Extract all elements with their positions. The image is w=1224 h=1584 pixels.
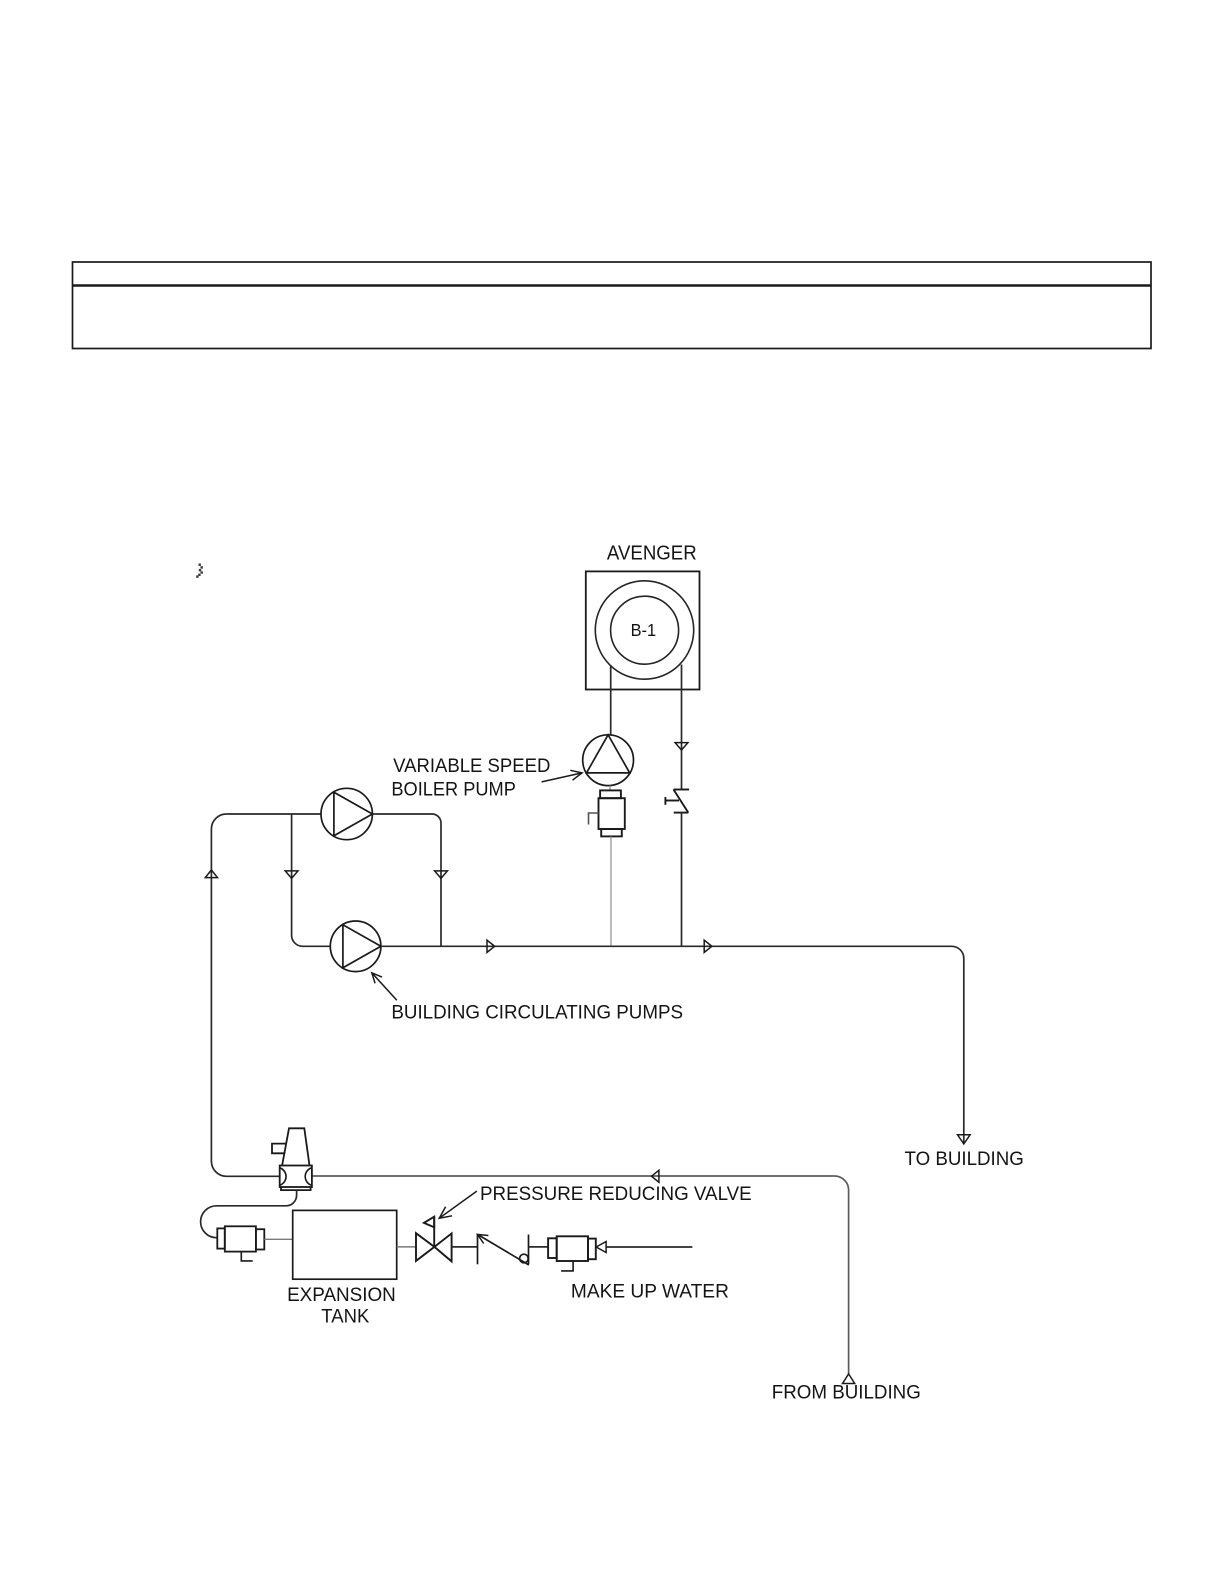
leader arrow to boiler pump	[542, 770, 582, 782]
pump P-2 building circulating pump	[321, 788, 372, 839]
arrow up from building	[843, 1374, 855, 1384]
wire boiler right drop upper	[681, 665, 683, 790]
arrow down on right drop	[675, 743, 688, 751]
tank fitting	[217, 1226, 264, 1261]
wire pump P-2 outlet to right down	[372, 814, 441, 946]
svg-text:BOILER PUMP: BOILER PUMP	[391, 779, 516, 800]
wire boiler right drop lower	[681, 813, 683, 947]
arrow down on branch	[285, 871, 298, 879]
wire return main from building	[312, 1176, 849, 1374]
svg-text:EXPANSION: EXPANSION	[287, 1285, 396, 1306]
label EXPANSION TANK	[287, 1285, 396, 1327]
svg-text:FROM BUILDING: FROM BUILDING	[772, 1383, 921, 1404]
label VARIABLE SPEED BOILER PUMP	[391, 756, 550, 801]
arrow left on return	[652, 1170, 659, 1182]
leader arrow to pump P-3	[372, 973, 397, 1001]
wire valve to check assembly	[452, 1246, 478, 1248]
arrow right on supply 2	[704, 940, 712, 952]
wire tank to valve	[397, 1246, 416, 1248]
header box	[73, 262, 1152, 349]
arrow right on supply 1	[487, 940, 495, 952]
wire check to makeup device	[529, 1246, 549, 1248]
wire thin below flow device	[610, 836, 612, 946]
svg-text:VARIABLE SPEED: VARIABLE SPEED	[393, 756, 550, 777]
wire branch to pump P-3	[292, 814, 331, 946]
arrow up on left riser	[205, 870, 217, 878]
wire makeup inlet	[606, 1246, 692, 1248]
ball check assembly	[478, 1234, 529, 1265]
svg-text:MAKE UP WATER: MAKE UP WATER	[571, 1282, 729, 1303]
pump P-1 variable speed boiler pump	[583, 735, 634, 786]
svg-text:TO BUILDING: TO BUILDING	[905, 1149, 1024, 1170]
stray mark	[196, 564, 203, 578]
wire left riser	[211, 814, 279, 1176]
arrow down to building	[958, 1135, 971, 1144]
leader arrow to PRV	[439, 1191, 477, 1218]
svg-text:TANK: TANK	[321, 1306, 369, 1327]
wire separator bottom U-turn	[201, 1190, 297, 1238]
svg-text:PRESSURE REDUCING VALVE: PRESSURE REDUCING VALVE	[480, 1184, 752, 1205]
check valve CV1	[665, 790, 689, 813]
svg-text:BUILDING CIRCULATING PUMPS: BUILDING CIRCULATING PUMPS	[391, 1003, 683, 1024]
arrow left into makeup	[596, 1242, 606, 1253]
pressure reducing valve PRV	[416, 1217, 452, 1262]
expansion tank	[293, 1210, 397, 1279]
boiler outer circle	[595, 581, 693, 679]
boiler B-1 box	[586, 571, 700, 689]
pump P-3 building circulating pump	[330, 921, 381, 972]
svg-text:AVENGER: AVENGER	[607, 543, 697, 565]
arrow down on right vertical	[435, 871, 448, 879]
flow device under boiler pump	[589, 790, 625, 836]
wire supply main to building	[381, 946, 964, 1144]
wire pumps top header	[226, 813, 321, 815]
makeup water device	[548, 1236, 596, 1271]
wire boiler left drop	[610, 665, 612, 735]
air separator	[272, 1128, 312, 1190]
boiler inner circle	[611, 596, 679, 664]
wire fitting to tank	[264, 1238, 292, 1240]
svg-text:B-1: B-1	[631, 620, 657, 640]
wire pump to flow device	[609, 786, 611, 791]
